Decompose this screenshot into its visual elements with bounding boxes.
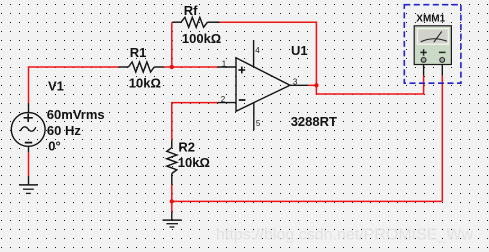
svg-text:10kΩ: 10kΩ (178, 155, 210, 170)
svg-text:10kΩ: 10kΩ (129, 76, 161, 91)
svg-text:0°: 0° (48, 139, 60, 154)
XMM1 plus terminal lead (423, 65, 425, 76)
wire ground bus bottom (172, 200, 443, 202)
ground below R2 (bottom bus) (163, 212, 182, 227)
svg-text:3: 3 (293, 77, 298, 86)
wire node A to Rf left (171, 22, 173, 67)
svg-text:V1: V1 (48, 78, 64, 93)
wire output node to XMM1 plus (316, 76, 423, 95)
svg-text:https://blog.csdn.net/PROMISE_: https://blog.csdn.net/PROMISE_Ww (216, 227, 473, 244)
op-amp pin 3 output stub (290, 84, 308, 86)
svg-text:R2: R2 (178, 139, 195, 154)
wire R1 to op-amp pin 1 (164, 66, 218, 68)
wire R2 bottom to ground node (171, 185, 173, 212)
op-amp pin 1 stub (218, 66, 237, 68)
wire Rf right to output node (220, 22, 317, 85)
multimeter XMM1 body (414, 26, 451, 65)
svg-text:XMM1: XMM1 (416, 13, 445, 24)
XMM1 plus terminal (421, 58, 426, 63)
op-amp pin 2 stub (217, 102, 236, 104)
wire V1 top to R1 (29, 67, 119, 103)
svg-text:Rf: Rf (184, 3, 198, 18)
ground below V1 (19, 176, 38, 193)
resistor R1 (119, 62, 164, 72)
wire XMM1 minus down to ground bus (441, 76, 443, 202)
svg-text:60mVrms: 60mVrms (47, 107, 105, 122)
node A junction dot (R1/Rf/pin1) (170, 65, 174, 69)
op-amp pin 4 stub (253, 40, 255, 67)
XMM1 minus terminal (440, 58, 445, 63)
svg-text:2: 2 (221, 95, 226, 104)
wire V1 bottom to ground (28, 152, 30, 176)
wire op-amp pin 2 to R2 top (172, 103, 218, 141)
XMM1 minus terminal lead (441, 65, 443, 76)
op-amp pin 5 stub (253, 103, 255, 131)
svg-text:100kΩ: 100kΩ (182, 31, 221, 46)
resistor R2 (167, 140, 177, 185)
svg-text:R1: R1 (130, 45, 147, 60)
svg-text:5: 5 (256, 119, 261, 128)
resistor Rf (172, 17, 219, 27)
svg-text:1: 1 (222, 59, 227, 68)
multimeter XMM1 dashed selection box (404, 5, 461, 84)
node C junction dot (ground bus) (170, 199, 174, 203)
svg-text:3288RT: 3288RT (291, 114, 337, 129)
node B junction dot (output) (314, 83, 318, 87)
AC source V1 (11, 103, 45, 152)
wire output stub red part (308, 84, 317, 86)
op-amp U1 (236, 58, 290, 111)
svg-text:4: 4 (255, 46, 260, 55)
svg-text:60 Hz: 60 Hz (47, 123, 81, 138)
svg-text:U1: U1 (291, 43, 308, 58)
